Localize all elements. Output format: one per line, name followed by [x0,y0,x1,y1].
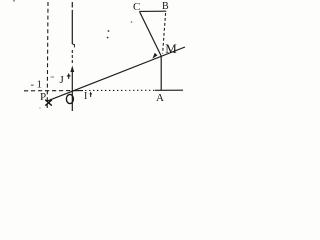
svg-text:B: B [162,1,169,12]
vector arrow after J [67,75,71,80]
svg-text:M: M [165,41,177,56]
svg-text:A: A [156,92,164,104]
dashed vertical line x=-1 [46,2,49,110]
noise speck left of C [131,21,133,23]
svg-text:C: C [133,1,140,13]
vector J arrowhead on y-axis [70,66,74,73]
noise dash near -1 [51,76,54,78]
y-axis hook mark [72,44,74,47]
y-axis lower solid segment [71,71,73,111]
x-axis dotted middle part [85,89,155,91]
handwritten O loop at origin [66,94,73,103]
y-axis top dash [71,2,73,8]
svg-text:J: J [60,74,65,86]
segment M-A vertical [160,56,162,91]
dashed segment B-M [163,13,166,54]
segment C-M [140,12,162,56]
x-axis dashed left part [24,90,72,92]
noise speck bottom [39,107,40,108]
segment C-B [139,10,166,12]
svg-text:I: I [84,91,87,102]
y-axis upper solid segment [71,10,73,44]
svg-text:- 1: - 1 [31,79,42,90]
long diagonal line through P, O, M [47,47,186,101]
x-axis short solid at origin [72,90,83,92]
x-axis solid right part [155,89,183,91]
y-axis dashed middle segment [71,50,73,64]
svg-text:P: P [40,91,46,103]
cross marker at P [45,100,52,106]
noise speck colon dots [108,30,110,32]
noise speck top edge [13,0,15,2]
arrowhead on diagonal before M [152,53,157,59]
vector arrow after I [90,93,92,97]
